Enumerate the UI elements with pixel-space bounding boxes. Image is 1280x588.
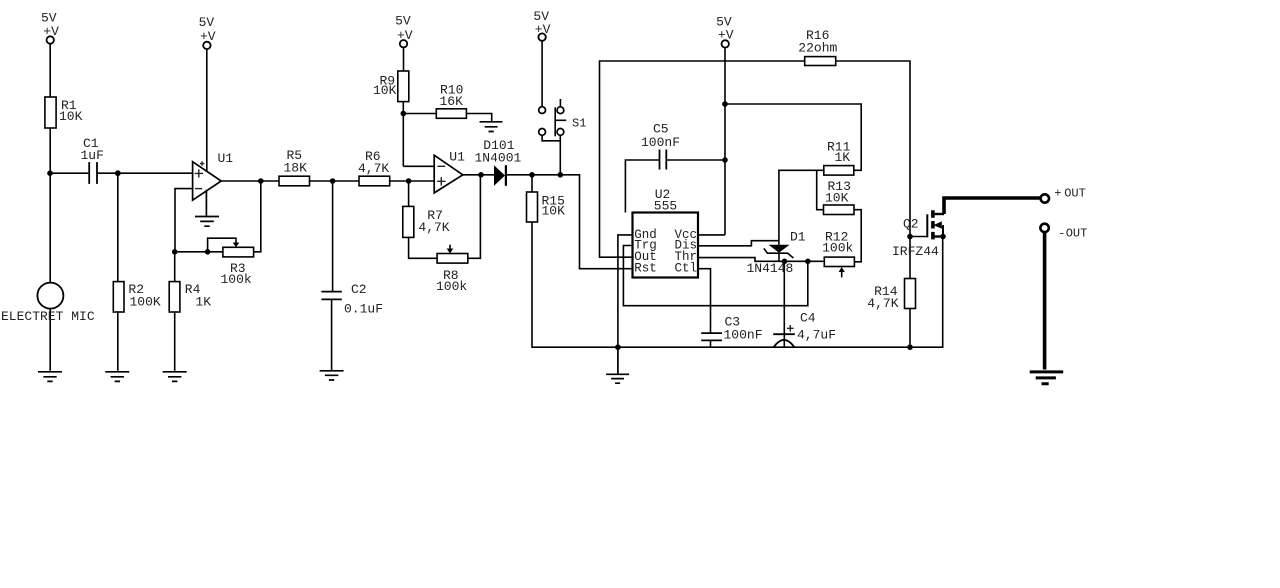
svg-text:22ohm: 22ohm	[798, 41, 837, 56]
svg-text:100nF: 100nF	[724, 328, 763, 343]
svg-text:4,7K: 4,7K	[418, 220, 449, 235]
svg-text:5V: 5V	[395, 14, 411, 29]
svg-text:1K: 1K	[835, 150, 851, 165]
svg-text:100k: 100k	[221, 272, 252, 287]
svg-text:+V: +V	[397, 28, 413, 43]
svg-text:+V: +V	[718, 28, 734, 43]
svg-text:OUT: OUT	[1064, 186, 1086, 200]
svg-text:5V: 5V	[199, 15, 215, 30]
svg-text:100K: 100K	[130, 294, 161, 309]
svg-text:4,7uF: 4,7uF	[797, 328, 836, 343]
svg-text:100nF: 100nF	[641, 135, 680, 150]
svg-text:+V: +V	[200, 29, 216, 44]
svg-text:OUT: OUT	[1066, 226, 1088, 240]
svg-text:4,7K: 4,7K	[358, 161, 389, 176]
svg-text:4,7K: 4,7K	[867, 296, 898, 311]
svg-text:100k: 100k	[822, 240, 853, 255]
svg-text:16K: 16K	[440, 94, 464, 109]
svg-text:Rst: Rst	[634, 262, 657, 276]
svg-text:U1: U1	[449, 150, 465, 165]
svg-text:+V: +V	[43, 24, 59, 39]
svg-text:1N4001: 1N4001	[475, 151, 522, 166]
svg-text:1K: 1K	[195, 294, 211, 309]
svg-text:S1: S1	[572, 117, 586, 131]
svg-text:1uF: 1uF	[81, 148, 104, 163]
svg-text:U1: U1	[218, 151, 234, 166]
svg-text:18K: 18K	[284, 161, 308, 176]
svg-text:D1: D1	[790, 230, 806, 245]
svg-text:C2: C2	[351, 282, 367, 297]
svg-text:555: 555	[654, 198, 677, 213]
svg-text:10K: 10K	[542, 204, 566, 219]
svg-text:1N4148: 1N4148	[747, 261, 794, 276]
svg-text:+: +	[1054, 186, 1061, 200]
svg-text:0.1uF: 0.1uF	[344, 302, 383, 317]
svg-text:10K: 10K	[825, 190, 849, 205]
svg-text:10K: 10K	[373, 83, 397, 98]
svg-text:Q2: Q2	[903, 217, 919, 232]
svg-text:-: -	[1058, 226, 1065, 240]
svg-text:100k: 100k	[436, 279, 467, 294]
svg-text:+V: +V	[535, 22, 551, 37]
svg-text:C4: C4	[800, 311, 816, 326]
svg-text:IRFZ44: IRFZ44	[892, 244, 939, 259]
svg-text:Ctl: Ctl	[675, 262, 698, 276]
svg-text:10K: 10K	[59, 109, 83, 124]
svg-text:ELECTRET MIC: ELECTRET MIC	[1, 309, 95, 324]
